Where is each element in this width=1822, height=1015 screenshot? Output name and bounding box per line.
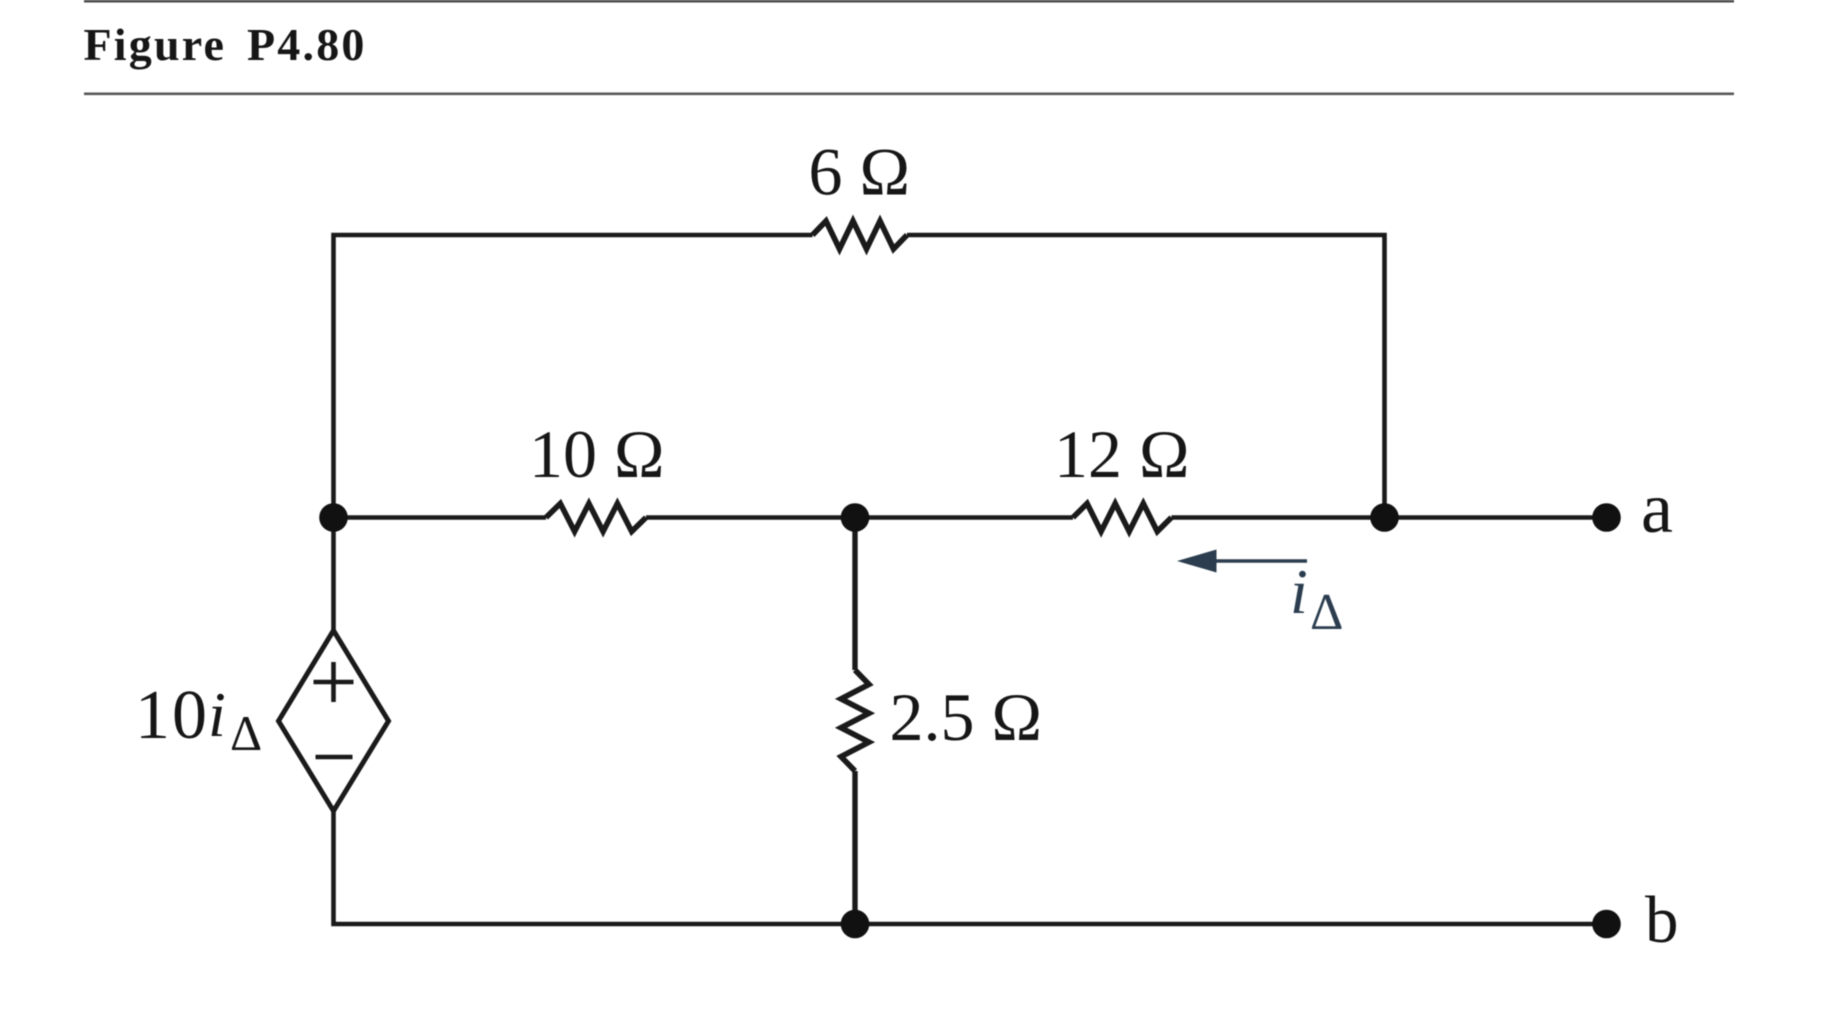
plus sign inside source xyxy=(314,662,354,702)
node: terminal b dot xyxy=(1592,910,1621,939)
node: center middle junction xyxy=(841,503,870,532)
heading rule xyxy=(84,93,1734,96)
wire: middle right segment to terminal a xyxy=(1171,515,1606,520)
svg-text:12 Ω: 12 Ω xyxy=(1054,416,1190,492)
svg-text:i: i xyxy=(208,679,226,750)
node: left middle junction xyxy=(319,503,348,532)
svg-text:6 Ω: 6 Ω xyxy=(809,134,911,210)
svg-text:10 Ω: 10 Ω xyxy=(529,416,665,492)
node: right middle junction xyxy=(1370,503,1399,532)
wire: left vertical from top wire down to left node xyxy=(334,235,813,518)
wire: middle left segment xyxy=(334,515,547,520)
svg-text:10: 10 xyxy=(135,677,209,754)
svg-text:2.5 Ω: 2.5 Ω xyxy=(890,679,1043,755)
wire: left vertical node to diamond top xyxy=(331,518,336,633)
resistor 10 Ohm zigzag xyxy=(546,504,646,532)
svg-text:i: i xyxy=(1290,556,1308,627)
svg-text:Figure: Figure xyxy=(84,19,227,70)
current arrow i-delta xyxy=(1177,550,1307,573)
node: terminal a dot xyxy=(1592,503,1621,532)
wire: middle center segment xyxy=(646,515,1073,520)
node: bottom center junction xyxy=(841,910,870,939)
wire: 2.5 Ohm bottom lead to bottom wire xyxy=(852,771,857,924)
wire: top right across and down to right node xyxy=(907,235,1385,518)
wire: center vertical from middle node down to 2.5 Ohm xyxy=(852,518,857,671)
resistor 6 Ohm zigzag xyxy=(813,221,908,249)
resistor 12 Ohm zigzag xyxy=(1073,504,1171,532)
dependent source U1 diamond xyxy=(279,631,389,812)
minus sign inside source xyxy=(316,755,353,760)
resistor 2.5 Ohm vertical zigzag xyxy=(841,670,869,771)
svg-text:Δ: Δ xyxy=(1310,584,1343,641)
svg-text:P4.80: P4.80 xyxy=(247,19,367,70)
svg-text:a: a xyxy=(1641,468,1673,548)
svg-text:b: b xyxy=(1645,883,1679,957)
top rule xyxy=(84,0,1734,3)
wire: diamond bottom to bottom-left corner and bottom wire to terminal b xyxy=(334,810,1607,924)
svg-text:Δ: Δ xyxy=(230,705,262,761)
